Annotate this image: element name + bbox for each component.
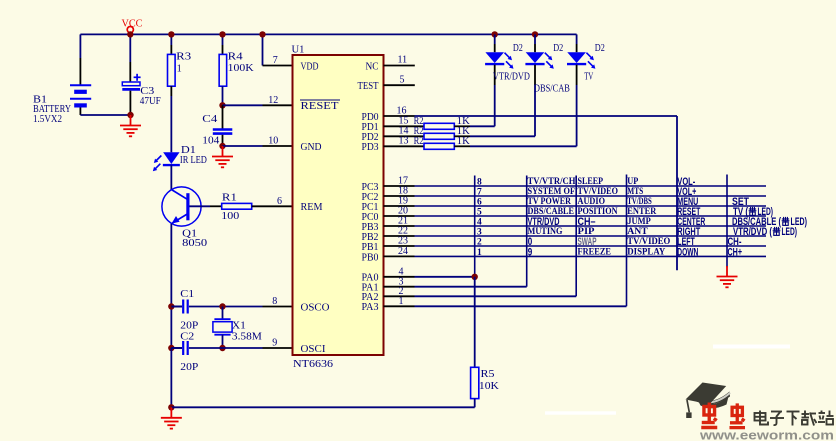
- svg-text:PB1: PB1: [362, 242, 379, 253]
- svg-text:8050: 8050: [182, 238, 207, 249]
- svg-text:100: 100: [221, 211, 239, 222]
- svg-text:TEST: TEST: [358, 81, 380, 92]
- wire R3 top: [170, 34, 172, 45]
- wire pin 23 stub: [384, 245, 415, 247]
- LED D1: [153, 152, 180, 171]
- wire column 1 to R5: [474, 277, 476, 368]
- svg-text:11: 11: [398, 55, 408, 66]
- svg-text:20P: 20P: [180, 321, 198, 332]
- svg-text:2: 2: [477, 237, 482, 247]
- svg-text:8: 8: [477, 177, 482, 187]
- wire pin 22 stub: [384, 235, 415, 237]
- svg-text:TV POWER: TV POWER: [528, 197, 572, 207]
- wire matrix row pin 19: [415, 205, 767, 207]
- svg-text:TV/DBS: TV/DBS: [627, 197, 652, 207]
- wire PD1 to R2: [384, 125, 425, 127]
- wire pin 21 stub: [384, 225, 415, 227]
- svg-text:CH+: CH+: [728, 247, 743, 259]
- logo graduation cap: [686, 383, 731, 419]
- resistor R5: [471, 367, 479, 398]
- wire GND pin stub: [263, 145, 293, 147]
- wire C3 bottom pin: [129, 91, 131, 115]
- node rail R4: [219, 31, 225, 37]
- wire PD0 row to column: [415, 115, 678, 117]
- wire matrix column 2 (PA1): [526, 176, 528, 287]
- wire LED3 anode pin: [576, 44, 578, 52]
- resistor R2 (2) 1K: [424, 133, 454, 139]
- svg-text:5: 5: [400, 74, 405, 85]
- wire R1 to REM pin 6: [252, 205, 293, 207]
- svg-text:ENTER: ENTER: [627, 207, 656, 217]
- wire C4 top pin: [222, 105, 224, 129]
- wire matrix column 1 (PA0): [474, 176, 476, 277]
- node battery/C3 ground junction: [127, 112, 133, 118]
- wire VDD drop: [262, 34, 264, 65]
- svg-text:TV/VIDEO: TV/VIDEO: [627, 237, 670, 247]
- wire LED2 cathode down: [534, 85, 536, 136]
- node C2 junction: [168, 345, 174, 351]
- wire matrix column 6 (ground): [726, 175, 728, 268]
- svg-text:104: 104: [202, 136, 219, 147]
- node C1 junction: [168, 303, 174, 309]
- svg-text:NT6636: NT6636: [293, 359, 333, 370]
- wire R2 (3) right pin: [454, 145, 470, 147]
- svg-text:1: 1: [177, 63, 182, 74]
- wire matrix row pin 21: [415, 225, 767, 227]
- wire Q1 base: [190, 205, 211, 207]
- crystal X1: [213, 319, 232, 335]
- wire RESET pin stub: [263, 104, 293, 106]
- node X1 bottom junction: [219, 345, 225, 351]
- wire LED3 cathode down: [576, 85, 578, 146]
- wire pin 18 stub: [384, 195, 415, 197]
- wire RESET row: [223, 104, 263, 106]
- wire GND row: [223, 145, 263, 147]
- node rail VDD: [259, 31, 265, 37]
- node rail R3: [168, 31, 174, 37]
- wire C2 to OSCI: [189, 347, 263, 349]
- svg-text:PA3: PA3: [362, 302, 379, 313]
- capacitor C2: [171, 341, 187, 355]
- wire pin 4 stub: [384, 276, 415, 278]
- LED D2 (VTR/DVD): [485, 52, 513, 69]
- wire pin 19 stub: [384, 205, 415, 207]
- svg-text:3.58M: 3.58M: [232, 332, 262, 343]
- svg-text:OSCO: OSCO: [301, 302, 331, 313]
- wire VDD pin stub: [263, 65, 293, 67]
- svg-text:UP: UP: [627, 177, 638, 187]
- svg-text:1: 1: [477, 248, 482, 258]
- svg-text:RESET: RESET: [301, 101, 340, 112]
- wire PA row pin 3: [415, 286, 527, 288]
- capacitor C1: [171, 300, 187, 314]
- svg-text:9: 9: [528, 247, 533, 259]
- svg-text:24: 24: [398, 246, 408, 257]
- wire R1 left pin: [210, 205, 222, 207]
- wire VCC rail: [80, 33, 576, 35]
- wire matrix column 3 (PA2): [575, 176, 577, 297]
- svg-text:FREEZE: FREEZE: [578, 247, 612, 257]
- wire R4 top pin: [222, 45, 224, 54]
- wire Q1 emitter down: [170, 224, 172, 307]
- svg-text:OSCI: OSCI: [301, 344, 327, 355]
- node bottom rail junction: [168, 404, 174, 410]
- capacitor C3: [122, 74, 140, 90]
- wire D1 to Q1 collector: [170, 165, 172, 190]
- wire LED3 cathode pin: [576, 65, 578, 85]
- wire NC stub pin 11: [384, 65, 415, 67]
- ground under C3: [120, 115, 141, 136]
- svg-text:AUDIO: AUDIO: [578, 197, 606, 207]
- node rail LED1: [492, 31, 498, 37]
- svg-text:JUMP: JUMP: [627, 217, 651, 227]
- wire PA row pin 4: [415, 276, 475, 278]
- wire matrix row pin 18: [415, 195, 767, 197]
- wire OSCO pin stub: [263, 306, 293, 308]
- logo text dianzi xiazai zhan: [755, 411, 834, 426]
- svg-text:C4: C4: [202, 114, 217, 125]
- svg-text:TV/VTR/CH: TV/VTR/CH: [528, 177, 577, 187]
- svg-text:ANT: ANT: [627, 227, 648, 237]
- wire R2 (3) to LED cathode: [470, 145, 577, 147]
- resistor R1: [222, 203, 252, 209]
- battery B1: [70, 85, 91, 105]
- wire R2 (2) right pin: [454, 135, 470, 137]
- transistor Q1: [162, 187, 201, 226]
- svg-text:VDD: VDD: [301, 61, 319, 72]
- wire TEST stub pin 5: [384, 84, 415, 86]
- wire R4 top: [222, 34, 224, 45]
- wire matrix row pin 24: [415, 255, 767, 257]
- wire matrix row pin 23: [415, 245, 767, 247]
- wire LED1 anode: [494, 34, 496, 44]
- wire LED1 cathode pin: [494, 65, 496, 85]
- svg-text:SWAP: SWAP: [578, 236, 597, 248]
- wire bottom ground rail: [171, 406, 474, 408]
- wire X1 bottom: [222, 335, 224, 348]
- svg-text:10: 10: [268, 136, 278, 147]
- wire R4 bottom: [222, 86, 224, 105]
- svg-text:SYSTEM OF: SYSTEM OF: [528, 187, 576, 197]
- svg-text:www.eeworm.com: www.eeworm.com: [699, 427, 834, 441]
- wire C3 top: [129, 34, 131, 62]
- wire osc left vertical: [170, 307, 172, 349]
- power VCC: [127, 27, 133, 35]
- node rail LED2: [532, 31, 538, 37]
- svg-text:D2: D2: [513, 43, 523, 54]
- svg-text:10K: 10K: [479, 381, 500, 392]
- svg-text:TV/VIDEO: TV/VIDEO: [578, 187, 619, 197]
- wire LED2 anode: [534, 34, 536, 44]
- ground right matrix: [717, 266, 738, 287]
- svg-text:6: 6: [277, 196, 282, 207]
- svg-text:6: 6: [477, 197, 482, 207]
- svg-text:7: 7: [477, 187, 482, 197]
- wire left vertical to ground rail: [170, 348, 172, 407]
- svg-text:47UF: 47UF: [140, 96, 161, 107]
- svg-text:12: 12: [268, 95, 278, 106]
- wire PA row pin 1: [415, 305, 627, 307]
- svg-text:5: 5: [477, 207, 482, 217]
- svg-text:R4: R4: [228, 52, 243, 63]
- resistor R4: [219, 54, 227, 86]
- wire R3 bottom pin: [170, 86, 172, 96]
- svg-text:R1: R1: [222, 193, 237, 204]
- svg-text:13: 13: [399, 136, 409, 147]
- ground bottom left: [161, 407, 182, 428]
- svg-text:DISPLAY: DISPLAY: [627, 247, 665, 257]
- wire battery top pin: [79, 58, 81, 85]
- svg-text:3: 3: [477, 227, 482, 237]
- svg-text:R5: R5: [481, 369, 495, 380]
- wire pin 20 stub: [384, 215, 415, 217]
- wire R5 bottom: [474, 399, 476, 408]
- wire C3 top pin: [129, 62, 131, 82]
- wire battery to ground: [80, 114, 130, 116]
- svg-text:TV: TV: [584, 71, 593, 82]
- wire PD0 column: [676, 116, 678, 270]
- svg-text:VTR/DVD: VTR/DVD: [493, 71, 530, 82]
- svg-text:1: 1: [399, 296, 404, 307]
- svg-text:1.5VX2: 1.5VX2: [33, 114, 62, 125]
- wire PD0 pin stub: [384, 115, 415, 117]
- node RESET junction: [219, 102, 225, 108]
- svg-text:VCC: VCC: [122, 18, 143, 29]
- resistor R3: [168, 54, 176, 86]
- wire pin 17 stub: [384, 185, 415, 187]
- node PA0 column junction: [472, 274, 478, 280]
- svg-text:MTS: MTS: [627, 187, 643, 197]
- svg-text:9: 9: [272, 338, 277, 349]
- wire PD3 to R2: [384, 145, 425, 147]
- svg-text:20P: 20P: [180, 362, 198, 373]
- IC U1 NT6636 body: [293, 55, 384, 355]
- svg-text:C1: C1: [180, 289, 194, 300]
- wire battery top: [79, 34, 81, 58]
- wire matrix column 4 (PA3): [626, 175, 628, 307]
- svg-text:U1: U1: [292, 45, 305, 56]
- wire LED2 anode pin: [534, 44, 536, 52]
- wire R3 top pin: [170, 45, 172, 54]
- wire matrix row pin 17: [415, 185, 767, 187]
- svg-text:23: 23: [398, 236, 408, 247]
- wire pin 3 stub: [384, 286, 415, 288]
- capacitor C4: [213, 130, 233, 134]
- svg-text:GND: GND: [301, 142, 323, 153]
- wire pin 24 stub: [384, 255, 415, 257]
- wire battery bottom pin: [79, 108, 81, 116]
- wire LED3 anode: [576, 34, 578, 44]
- resistor R2 (3) 1K: [424, 143, 454, 149]
- svg-text:DOWN: DOWN: [677, 247, 698, 259]
- svg-text:IR LED: IR LED: [180, 155, 207, 166]
- wire LED1 anode pin: [494, 44, 496, 52]
- svg-text:DBS/CAB: DBS/CAB: [534, 84, 570, 95]
- wire R2 (1) to LED cathode: [470, 125, 495, 127]
- wire pin 1 stub: [384, 305, 415, 307]
- wire OSCI pin stub: [263, 347, 293, 349]
- svg-text:LED): LED): [782, 226, 798, 238]
- svg-text:4: 4: [477, 217, 482, 227]
- wire matrix row pin 22: [415, 235, 767, 237]
- svg-text:7: 7: [273, 55, 278, 66]
- LED D2 (DBS/CAB): [525, 52, 553, 69]
- wire C4 bottom pin: [222, 135, 224, 146]
- resistor R2 (1) 1K: [424, 123, 454, 129]
- wire pin 2 stub: [384, 295, 415, 297]
- svg-text:8: 8: [272, 296, 277, 307]
- svg-text:PD3: PD3: [362, 142, 379, 153]
- wire PA row pin 2: [415, 295, 577, 297]
- svg-text:C2: C2: [180, 332, 194, 343]
- LED D2 (TV): [567, 52, 595, 69]
- svg-text:NC: NC: [366, 61, 379, 72]
- node rail VCC: [127, 31, 133, 37]
- wire R2 (1) right pin: [454, 125, 470, 127]
- svg-text:100K: 100K: [228, 63, 255, 74]
- svg-text:X1: X1: [232, 320, 246, 331]
- svg-text:REM: REM: [301, 202, 323, 213]
- node X1 top junction: [219, 303, 225, 309]
- svg-text:D2: D2: [595, 43, 605, 54]
- svg-text:D2: D2: [553, 43, 563, 54]
- ground under C4: [212, 146, 233, 167]
- wire X1 top: [222, 307, 224, 320]
- svg-text:SLEEP: SLEEP: [578, 177, 604, 187]
- wire R2 (2) to LED cathode: [470, 135, 535, 137]
- wire LED1 cathode down: [494, 85, 496, 126]
- wire PD2 to R2: [384, 135, 425, 137]
- wire LED2 cathode pin: [534, 65, 536, 85]
- wire matrix row pin 20: [415, 215, 767, 217]
- wire C1 to OSCO: [189, 306, 263, 308]
- svg-text:PB0: PB0: [362, 252, 379, 263]
- node GND junction: [219, 143, 225, 149]
- wire R3 to D1: [170, 96, 172, 152]
- svg-text:MUTING: MUTING: [528, 227, 563, 237]
- svg-text:R3: R3: [176, 52, 191, 63]
